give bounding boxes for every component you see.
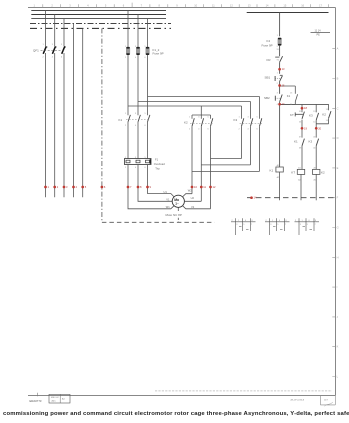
svg-text:K: K (337, 345, 339, 349)
svg-text:2: 2 (239, 129, 241, 131)
svg-text:24/7: 24/7 (324, 400, 329, 402)
svg-text:V1: V1 (166, 198, 170, 202)
svg-text:7: 7 (315, 224, 317, 226)
svg-text:11: 11 (203, 185, 206, 189)
svg-text:FR: FR (267, 58, 272, 62)
svg-text:A&C: A&C (52, 399, 57, 402)
svg-text:19: 19 (304, 126, 307, 130)
svg-text:E: E (337, 166, 339, 170)
svg-text:6: 6 (145, 167, 147, 169)
svg-text:3: 3 (300, 224, 302, 226)
svg-text:7: 7 (251, 224, 253, 226)
svg-text:Fuse 9P: Fuse 9P (153, 52, 164, 56)
svg-text:17: 17 (319, 3, 322, 7)
svg-text:18: 18 (304, 106, 307, 110)
svg-text:SB1: SB1 (265, 76, 271, 80)
svg-text:K3: K3 (309, 139, 313, 143)
svg-text:12: 12 (213, 185, 216, 189)
svg-text:3: 3 (135, 113, 137, 115)
svg-text:QF1: QF1 (33, 49, 39, 53)
svg-text:2: 2 (43, 57, 45, 59)
svg-text:A4: A4 (62, 398, 65, 401)
svg-text:K2: K2 (184, 121, 188, 125)
svg-text:2: 2 (57, 185, 59, 189)
svg-text:9: 9 (150, 185, 152, 189)
svg-text:5: 5 (277, 224, 279, 226)
svg-text:2: 2 (277, 83, 279, 85)
svg-text:U1: U1 (164, 190, 168, 194)
svg-text:7: 7 (130, 185, 132, 189)
svg-text:W1: W1 (166, 205, 170, 209)
svg-text:5: 5 (145, 113, 147, 115)
svg-text:I: I (337, 285, 338, 289)
svg-text:K3: K3 (234, 118, 238, 122)
svg-text:8: 8 (140, 185, 142, 189)
svg-text:U2: U2 (191, 196, 195, 200)
svg-text:7: 7 (285, 224, 287, 226)
svg-text:9: 9 (176, 3, 178, 7)
svg-text:1: 1 (277, 35, 279, 37)
svg-text:13: 13 (248, 3, 251, 7)
svg-text:K1: K1 (119, 118, 123, 122)
svg-text:15: 15 (282, 84, 285, 88)
svg-text:5: 5 (243, 224, 245, 226)
svg-text:1: 1 (48, 185, 50, 189)
svg-text:2: 2 (189, 129, 191, 131)
svg-text:11 14: 11 14 (315, 30, 322, 33)
svg-text:10: 10 (194, 3, 197, 7)
svg-text:4: 4 (76, 185, 78, 189)
svg-text:K1: K1 (270, 168, 274, 172)
svg-text:12: 12 (230, 3, 233, 7)
svg-text:V2: V2 (191, 205, 195, 209)
svg-text:4: 4 (135, 57, 137, 59)
svg-text:13: 13 (290, 93, 293, 95)
svg-text:J: J (337, 315, 339, 319)
svg-text:4: 4 (248, 129, 250, 131)
svg-text:20: 20 (318, 126, 321, 130)
svg-text:3: 3 (69, 3, 71, 7)
svg-text:Trip: Trip (155, 167, 160, 171)
svg-text:2: 2 (125, 57, 127, 59)
svg-text:7: 7 (141, 3, 143, 7)
svg-text:KT: KT (290, 113, 294, 117)
svg-text:A1: A1 (298, 166, 301, 169)
svg-text:11: 11 (212, 3, 215, 7)
svg-text:B: B (337, 77, 339, 81)
svg-text:ERA0773: ERA0773 (30, 399, 42, 403)
svg-text:16: 16 (301, 3, 304, 7)
svg-text:4: 4 (87, 3, 89, 7)
svg-text:K2: K2 (321, 171, 325, 175)
svg-text:1: 1 (189, 117, 191, 119)
svg-text:KT: KT (291, 171, 295, 175)
svg-text:K1: K1 (287, 94, 291, 98)
svg-text:K3: K3 (309, 114, 313, 118)
svg-text:5: 5 (105, 3, 107, 7)
svg-text:G: G (337, 226, 339, 230)
svg-text:AS-DF-0236-B: AS-DF-0236-B (291, 399, 305, 402)
svg-text:6: 6 (145, 57, 147, 59)
svg-text:3: 3 (277, 93, 279, 95)
svg-text:3: 3 (248, 117, 250, 119)
svg-text:4: 4 (135, 125, 137, 127)
svg-text:F1: F1 (155, 157, 159, 161)
svg-text:5: 5 (257, 117, 259, 119)
svg-text:13: 13 (282, 67, 285, 71)
svg-text:1: 1 (239, 117, 241, 119)
svg-text:6: 6 (145, 125, 147, 127)
svg-text:3: 3 (52, 44, 54, 46)
svg-text:MSC-02: MSC-02 (51, 397, 59, 399)
svg-text:1: 1 (34, 3, 36, 7)
svg-text:2: 2 (125, 167, 127, 169)
svg-text:6: 6 (123, 3, 125, 7)
svg-text:L: L (337, 375, 339, 379)
svg-text:15: 15 (283, 3, 286, 7)
svg-text:SB2: SB2 (264, 96, 270, 100)
svg-text:4: 4 (198, 129, 200, 131)
svg-text:3~: 3~ (175, 202, 179, 206)
svg-text:2: 2 (277, 46, 279, 48)
svg-text:2: 2 (125, 125, 127, 127)
svg-text:H: H (337, 255, 339, 259)
svg-text:1: 1 (277, 73, 279, 75)
svg-text:8: 8 (159, 3, 161, 7)
svg-text:6: 6 (61, 57, 63, 59)
svg-text:10: 10 (194, 185, 197, 189)
svg-text:Fuse 9P: Fuse 9P (262, 43, 273, 47)
svg-text:2: 2 (51, 3, 53, 7)
svg-text:5: 5 (85, 185, 87, 189)
svg-text:F: F (337, 196, 339, 200)
svg-text:3: 3 (66, 185, 68, 189)
svg-text:K2: K2 (322, 113, 326, 117)
svg-text:A: A (337, 47, 339, 51)
svg-text:6: 6 (257, 129, 259, 131)
svg-text:4: 4 (52, 57, 54, 59)
svg-text:5: 5 (307, 224, 309, 226)
svg-text:Overload: Overload (154, 162, 165, 166)
svg-text:PE: PE (317, 34, 321, 37)
svg-text:D: D (337, 136, 339, 140)
svg-text:4: 4 (135, 167, 137, 169)
svg-text:6: 6 (104, 185, 106, 189)
svg-text:1: 1 (43, 44, 45, 46)
svg-text:W2: W2 (188, 188, 192, 192)
svg-text:Moto NC 8P: Moto NC 8P (166, 213, 182, 217)
svg-text:3: 3 (270, 224, 272, 226)
svg-text:5: 5 (208, 117, 210, 119)
svg-text:C: C (337, 106, 339, 110)
svg-text:3: 3 (198, 117, 200, 119)
svg-text:K1: K1 (294, 139, 298, 143)
svg-text:3: 3 (236, 224, 238, 226)
svg-text:5: 5 (61, 44, 63, 46)
svg-text:1: 1 (125, 113, 127, 115)
svg-text:96: 96 (277, 60, 280, 62)
svg-text:14: 14 (266, 3, 269, 7)
svg-text:6: 6 (208, 129, 210, 131)
